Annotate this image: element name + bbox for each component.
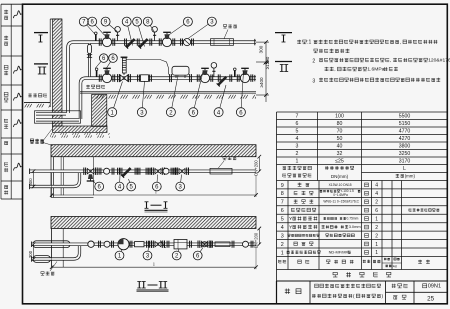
callout 3 top [189, 17, 217, 38]
title block [277, 281, 448, 304]
flange pair mid [137, 39, 139, 46]
thermometer (7) top pipe [95, 32, 98, 41]
svg-text:300: 300 [28, 178, 33, 186]
svg-text:1: 1 [375, 217, 378, 223]
callout 5 top [133, 17, 145, 46]
svg-text:300: 300 [28, 250, 33, 258]
flange pair after [150, 39, 152, 46]
thermometer bottom pipe 2 [234, 68, 237, 77]
svg-text:2: 2 [375, 200, 378, 206]
main pipe section I-I [30, 169, 256, 175]
strainer (5) top pipe [138, 37, 149, 48]
svg-text:≥400: ≥400 [259, 77, 264, 88]
svg-text:5500: 5500 [399, 114, 411, 120]
svg-text:DN+200: DN+200 [254, 232, 259, 248]
callout 3 section I-I [176, 175, 185, 191]
callout 1 plan bottom [108, 82, 123, 117]
svg-text:25: 25 [427, 296, 434, 303]
svg-text:1: 1 [281, 250, 284, 256]
svg-text:ND-MF/MFS: ND-MF/MFS [329, 250, 351, 255]
gauge (8) top pipe [152, 27, 158, 41]
title II-II [137, 282, 169, 292]
svg-text:3800: 3800 [399, 144, 411, 150]
section mark II right [275, 62, 292, 72]
svg-text:X13W-10 DN15: X13W-10 DN15 [329, 183, 352, 187]
strainer (4) bottom pipe [217, 74, 232, 86]
callout 6 plan bottom [189, 72, 203, 117]
callout 6 plan bottom [236, 72, 245, 117]
pit foundation hatch [50, 95, 110, 138]
bypass pipe with valve [88, 44, 92, 77]
callout 6 section I-I [92, 181, 104, 191]
callout 6 section I-I [152, 175, 161, 191]
svg-text:7: 7 [281, 200, 284, 206]
section mark I left [34, 33, 48, 42]
callout 3 section II-II [143, 248, 152, 260]
niche lines II-II [52, 229, 64, 268]
label 保温层 II-II bottom left [41, 262, 57, 276]
svg-text:4770: 4770 [399, 129, 411, 135]
svg-text:40: 40 [337, 144, 343, 150]
material table [277, 181, 448, 270]
svg-text:(kg): (kg) [392, 264, 397, 268]
title I-I [145, 202, 168, 212]
return riser and bottom pipe [81, 75, 257, 119]
svg-text:2: 2 [312, 59, 315, 65]
lower pipe elbow II-II [32, 246, 80, 262]
dim 300 II-II [28, 242, 36, 260]
callout 4 top [122, 17, 132, 45]
svg-text::1: :1 [307, 40, 311, 46]
svg-text:WNG-11 0~150&#176;C: WNG-11 0~150&#176;C [323, 200, 359, 204]
svg-text:70: 70 [337, 129, 343, 135]
supply riser and top pipe [68, 39, 256, 113]
svg-text:09N1: 09N1 [428, 284, 441, 290]
svg-text:0~1.6MPa: 0~1.6MPa [333, 193, 348, 197]
svg-text:L: L [403, 166, 406, 172]
callout 6 top [88, 17, 105, 35]
svg-text:3250: 3250 [399, 151, 411, 157]
svg-text:8: 8 [281, 191, 284, 197]
globe valve (6b) top pipe [159, 32, 174, 46]
svg-text:≤25: ≤25 [335, 159, 344, 165]
callout 6 mid [96, 54, 108, 68]
caption 材料明细表 [277, 270, 448, 282]
svg-text:4: 4 [296, 136, 299, 142]
niche outline I-I [51, 157, 94, 198]
svg-text:,: , [334, 68, 335, 73]
flange pair [125, 39, 127, 46]
label 保温层 I-I right [218, 156, 236, 168]
underground insulation box [35, 111, 81, 123]
svg-text:,: , [400, 41, 401, 46]
globe valve (6) bottom pipe 3 [237, 68, 252, 82]
lower pipe elbow I-I [30, 173, 80, 189]
callout 6 mid [106, 54, 118, 70]
gauge bottom pipe [211, 63, 217, 77]
dimension chain right of plan [256, 40, 270, 102]
pressure tap+gauge (9) top pipe [115, 27, 121, 41]
self-operated pressure control valve (1) [118, 57, 131, 82]
callout 6 top [169, 17, 193, 35]
svg-text:0.75mm: 0.75mm [347, 217, 359, 221]
dim DN+200 II-II right [254, 227, 262, 249]
svg-text:2: 2 [375, 233, 378, 239]
svg-text:2: 2 [281, 242, 284, 248]
callout 6 section II-II [193, 248, 203, 260]
pipe sleeve II-II upper stub [33, 241, 70, 248]
components on pipe I-I [99, 167, 232, 178]
svg-text:5: 5 [296, 129, 299, 135]
globe valve (6) top pipe [99, 32, 114, 46]
globe valve (6) bottom pipe [99, 68, 114, 82]
callout 4 section I-I [115, 175, 124, 191]
flow sensor (3) bottom pipe [138, 75, 152, 82]
dim line bottom II-II [50, 246, 258, 269]
dimension table L [277, 112, 448, 181]
impulse line [127, 60, 169, 75]
main pipe section II-II [32, 242, 256, 248]
svg-text:6: 6 [375, 208, 378, 214]
flow sensor (3) top pipe [181, 39, 194, 46]
svg-text:4: 4 [281, 225, 284, 231]
section mark II left [34, 64, 48, 74]
left title strip [1, 4, 23, 199]
svg-text:7: 7 [296, 114, 299, 120]
svg-text:3: 3 [312, 78, 315, 84]
dim line bottom I-I [50, 173, 258, 197]
label 保温层 section I-I left [30, 140, 53, 146]
callout 5 section I-I [127, 179, 136, 191]
section mark I right [275, 33, 292, 42]
svg-text:1: 1 [296, 159, 299, 165]
svg-text:50: 50 [337, 136, 343, 142]
svg-text:1: 1 [375, 242, 378, 248]
svg-text:5: 5 [281, 217, 284, 223]
wall (plan) with hatch [50, 19, 62, 126]
svg-text:3: 3 [281, 233, 284, 239]
svg-text:4270: 4270 [399, 136, 411, 142]
svg-text:3: 3 [296, 144, 299, 150]
callout 3 plan bottom [137, 82, 146, 117]
svg-text:DN(mm): DN(mm) [331, 174, 349, 179]
svg-text:4: 4 [375, 191, 378, 197]
svg-text:6: 6 [296, 121, 299, 127]
components on pipe II-II [88, 239, 253, 250]
svg-text:DN+200: DN+200 [254, 160, 259, 176]
drain valve I-I [84, 168, 97, 182]
insulated pipe section top [211, 39, 234, 46]
callout 9 top [101, 17, 117, 31]
callout 2 plan bottom [166, 76, 178, 117]
pipe sleeve II-II lower stub [33, 256, 51, 263]
callout 4 plan bottom [214, 85, 226, 117]
underground service pipes [36, 114, 79, 120]
globe valve (6) bottom pipe 2 [197, 68, 212, 82]
svg-text:9: 9 [281, 183, 284, 189]
svg-text:3.0mm: 3.0mm [349, 224, 361, 229]
svg-text:2: 2 [296, 151, 299, 157]
wall band section II-II [51, 217, 256, 229]
callout 1 section II-II [115, 249, 124, 260]
notes text [297, 40, 450, 85]
label 保温层 top right [223, 24, 237, 38]
indoor floor line 室内地坪 [80, 85, 256, 99]
dim DN+200 I-I right [254, 155, 262, 176]
svg-text:1: 1 [375, 250, 378, 256]
svg-text:1.6MPa: 1.6MPa [367, 67, 384, 73]
callout 7 top [79, 17, 95, 34]
svg-text:2: 2 [375, 225, 378, 231]
thermometer bottom pipe [95, 68, 98, 77]
outdoor ground line 室外地坪 [24, 93, 50, 107]
strainer (4) top pipe [125, 37, 136, 48]
wall band section I-I [51, 145, 256, 157]
svg-text:120&#176;C: 120&#176;C [428, 58, 450, 64]
svg-text:(mm): (mm) [405, 173, 416, 178]
svg-text:3170: 3170 [399, 159, 411, 165]
callout 8 top [143, 17, 154, 31]
heat meter (2) [170, 66, 192, 82]
dim 300 I-I [28, 169, 36, 188]
svg-text:32: 32 [337, 151, 343, 157]
svg-text:4: 4 [375, 183, 378, 189]
svg-text:80: 80 [337, 121, 343, 127]
svg-text:300: 300 [258, 45, 263, 53]
svg-text:100: 100 [335, 114, 344, 120]
callout 2 section II-II [172, 249, 181, 260]
svg-text:,: , [390, 59, 391, 64]
insulation label 保温层 bottom-left [30, 129, 52, 143]
svg-text:6: 6 [281, 208, 284, 214]
svg-text:5150: 5150 [399, 121, 411, 127]
